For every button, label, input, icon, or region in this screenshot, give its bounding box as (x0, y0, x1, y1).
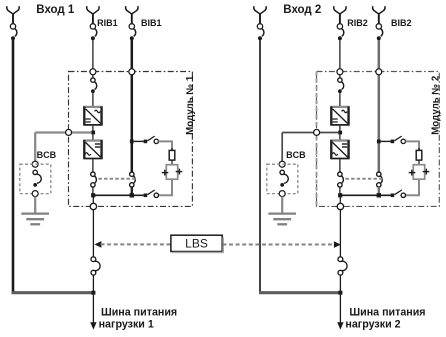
lower battery disconnect switch, module 2 (391, 190, 406, 198)
inverter DC/AC converter, module 2 (330, 140, 350, 159)
inverter DC/AC converter, module 1 (83, 140, 103, 159)
wire: inverter switch to output node, module 1 (92, 187, 94, 194)
wire: BCB branch vertical, 2 (281, 133, 283, 162)
wire: BCB to ground, 1 (34, 197, 36, 214)
rectifier AC/DC converter, module 1 (83, 107, 103, 126)
dashed box around BCB switch, 2 (267, 164, 298, 193)
wire: tap to upper battery switch, module 1 (134, 140, 144, 142)
node: BIB2 wire crossing module 2 top border (376, 69, 382, 75)
rectifier input switch inside module 2 (338, 78, 344, 93)
wire: switch to rectifier, module 2 (339, 93, 341, 106)
wire: module 2 output link (inverter node to bypass node) (340, 194, 390, 196)
wire: module 1 output to bottom border (92, 197, 94, 203)
node: BIB1 wire crossing module 1 top border (129, 69, 135, 75)
svg-text:RIB2: RIB2 (347, 18, 368, 28)
junction: DC-link node, module 2 (338, 131, 342, 135)
svg-text:BIB1: BIB1 (141, 18, 162, 28)
wire: inverter switch to output node, module 2 (339, 187, 341, 194)
ground (battery earth), 2 (268, 214, 296, 225)
wire: module 2 rectifier input stub (339, 75, 341, 78)
node: DC-link wire crossing module 2 left border (314, 129, 320, 135)
interlock (dashed) between inverter and bypass switches, module 1 (99, 178, 138, 180)
svg-text:BCB: BCB (37, 150, 57, 160)
svg-text:нагрузки 1: нагрузки 1 (99, 319, 154, 331)
breaker BIB1 (129, 14, 136, 41)
wire: battery branch (upper), module 2 (406, 141, 420, 150)
junction: output bus node 1 (91, 291, 95, 295)
wire: DC-link node to inverter, module 1 (92, 134, 94, 140)
node: DC-link wire crossing module 1 left border (66, 129, 72, 135)
wire: rectifier to DC-link node, module 2 (339, 126, 341, 133)
battery GB2 (409, 165, 430, 180)
arrow: load feed 2 (337, 322, 343, 329)
arrow from LBS to bus 1 (94, 241, 101, 248)
wire: BIB1 bypass column through module 1 (131, 40, 134, 172)
node: BCB branch entering dashed box, 2 (279, 161, 285, 167)
arrow from LBS to bus 2 (334, 241, 341, 248)
breaker RIB1 (90, 14, 97, 41)
upper battery disconnect switch, module 2 (391, 136, 406, 143)
junction: DC-link node, module 1 (91, 131, 95, 135)
wire: RIB2 column into module 2 (339, 40, 341, 69)
wire: BIB2 bypass column through module 2 (378, 40, 381, 172)
rectifier input switch inside module 1 (91, 78, 97, 93)
wire: BCB to ground, 2 (281, 197, 283, 214)
fuse F1 (battery fuse) (169, 150, 175, 160)
bypass static switch, module 1 (130, 172, 136, 187)
svg-text:Модуль № 2: Модуль № 2 (430, 76, 441, 135)
module 2 dashed enclosure box (317, 72, 440, 207)
wire: BCB branch vertical, 1 (34, 133, 36, 162)
svg-text:BIB2: BIB2 (391, 18, 412, 28)
wire: DC-link to BCB branch, module 1 (35, 131, 91, 133)
dashed control link LBS to bus 1 (101, 243, 172, 245)
svg-text:Вход 1: Вход 1 (36, 4, 75, 16)
fuse F2 (battery fuse) (416, 150, 422, 160)
wire: bus to load arrow 1 (92, 295, 94, 324)
svg-text:Шина питания: Шина питания (101, 307, 177, 319)
breaker BIB2 (376, 14, 383, 41)
ground (battery earth), 1 (21, 214, 49, 225)
wire: inverter output, module 1 (92, 159, 94, 172)
wire: bypass switch to output node, module 1 (131, 187, 133, 195)
junction: bypass tap to battery charger, module 2 (377, 140, 381, 144)
wire: module 2 output to bottom border (339, 197, 341, 203)
breaker on reserve input line 1 (10, 14, 17, 41)
junction: module 1 output node (91, 193, 95, 197)
wire: reserve input column 2 down to output bus (259, 40, 261, 294)
input 1 feeder symbol (reserve line) (7, 6, 19, 14)
inverter output switch, module 2 (338, 172, 344, 187)
breaker RIB2 (337, 14, 344, 41)
wire: output bus horizontal segment 2 (259, 291, 340, 294)
wire: rectifier to DC-link node, module 1 (92, 126, 94, 133)
bypass static switch, module 2 (377, 172, 383, 187)
node: RIB2 wire crossing module 2 top border (337, 69, 343, 75)
wire: switch to output bus 2 (339, 275, 341, 291)
node: BCB branch leaving dashed box, 1 (32, 191, 38, 197)
dashed box around BCB switch, 1 (20, 164, 51, 193)
wire: module 1 rectifier input stub (92, 75, 94, 78)
wire: output bus horizontal segment 1 (12, 291, 93, 294)
BIB2 feeder symbol (373, 6, 385, 14)
RIB1 feeder symbol (87, 6, 99, 14)
junction: bypass tap to battery charger, module 1 (130, 140, 134, 144)
module 2 left border (gray dashed) (316, 72, 318, 207)
wire: reserve input column 1 down to output bus (12, 40, 15, 294)
svg-text:RIB1: RIB1 (97, 18, 118, 28)
svg-text:Шина питания: Шина питания (349, 307, 425, 319)
battery GB1 (162, 165, 183, 180)
svg-text:Вход 2: Вход 2 (283, 4, 321, 16)
inverter output switch, module 1 (91, 172, 97, 187)
wire: DC-link to BCB branch, module 2 (282, 132, 338, 134)
node: BCB branch leaving dashed box, 2 (279, 191, 285, 197)
wire: switch to output bus 1 (92, 275, 94, 291)
rectifier AC/DC converter, module 2 (330, 107, 350, 126)
junction: output bus node 2 (338, 291, 342, 295)
wire: switch to rectifier, module 1 (92, 93, 94, 106)
BIB1 feeder symbol (126, 6, 138, 14)
junction: module 2 output node (338, 193, 342, 197)
wire: battery branch (lower), module 1 (159, 180, 173, 196)
node: BCB branch entering dashed box, 1 (32, 161, 38, 167)
wire through fuse, module 2 (418, 148, 420, 166)
junction: bypass joins output, module 1 (130, 193, 134, 197)
junction: bypass joins output, module 2 (377, 193, 381, 197)
node: RIB1 wire crossing module 1 top border (90, 69, 96, 75)
wire: inverter output, module 2 (339, 159, 341, 172)
wire: module 1 output feeder (92, 210, 94, 257)
wire: module 1 output link (inverter node to bypass node) (93, 194, 143, 196)
upper battery disconnect switch, module 1 (144, 136, 159, 143)
wire: RIB1 column into module 1 (92, 40, 94, 69)
battery circuit breaker BCB, 2 (280, 170, 288, 187)
svg-text:Модуль № 1: Модуль № 1 (185, 75, 196, 135)
wire through fuse, module 1 (171, 148, 173, 166)
input 2 feeder symbol (reserve line) (254, 6, 266, 14)
wire: battery branch (upper), module 1 (159, 141, 173, 150)
interlock (dashed) between inverter and bypass switches, module 2 (346, 178, 385, 180)
RIB2 feeder symbol (334, 6, 346, 14)
wire: module 2 output feeder (339, 210, 341, 257)
dashed control link LBS to bus 2 (222, 244, 334, 246)
output switch on feeder 2 (338, 257, 347, 275)
wire: DC-link node to inverter, module 2 (339, 134, 341, 140)
node: module 1 output crossing bottom border (90, 203, 96, 209)
wire: bypass switch to output node, module 2 (378, 187, 380, 195)
breaker on reserve input line 2 (257, 14, 264, 41)
svg-text:LBS: LBS (185, 237, 208, 251)
lower battery disconnect switch, module 1 (144, 190, 159, 198)
arrow: load feed 1 (90, 322, 96, 329)
node: module 2 output crossing bottom border (337, 203, 343, 209)
battery circuit breaker BCB, 1 (33, 170, 41, 187)
LBS box (load break switch tie) (171, 235, 222, 251)
wire: tap to upper battery switch, module 2 (381, 140, 391, 142)
svg-text:BCB: BCB (286, 150, 306, 160)
svg-text:нагрузки 2: нагрузки 2 (345, 319, 400, 331)
wire: bus to load arrow 2 (339, 295, 341, 324)
module 1 dashed enclosure box (69, 72, 193, 207)
wire: battery branch (lower), module 2 (406, 180, 420, 196)
output switch on feeder 1 (91, 257, 100, 275)
